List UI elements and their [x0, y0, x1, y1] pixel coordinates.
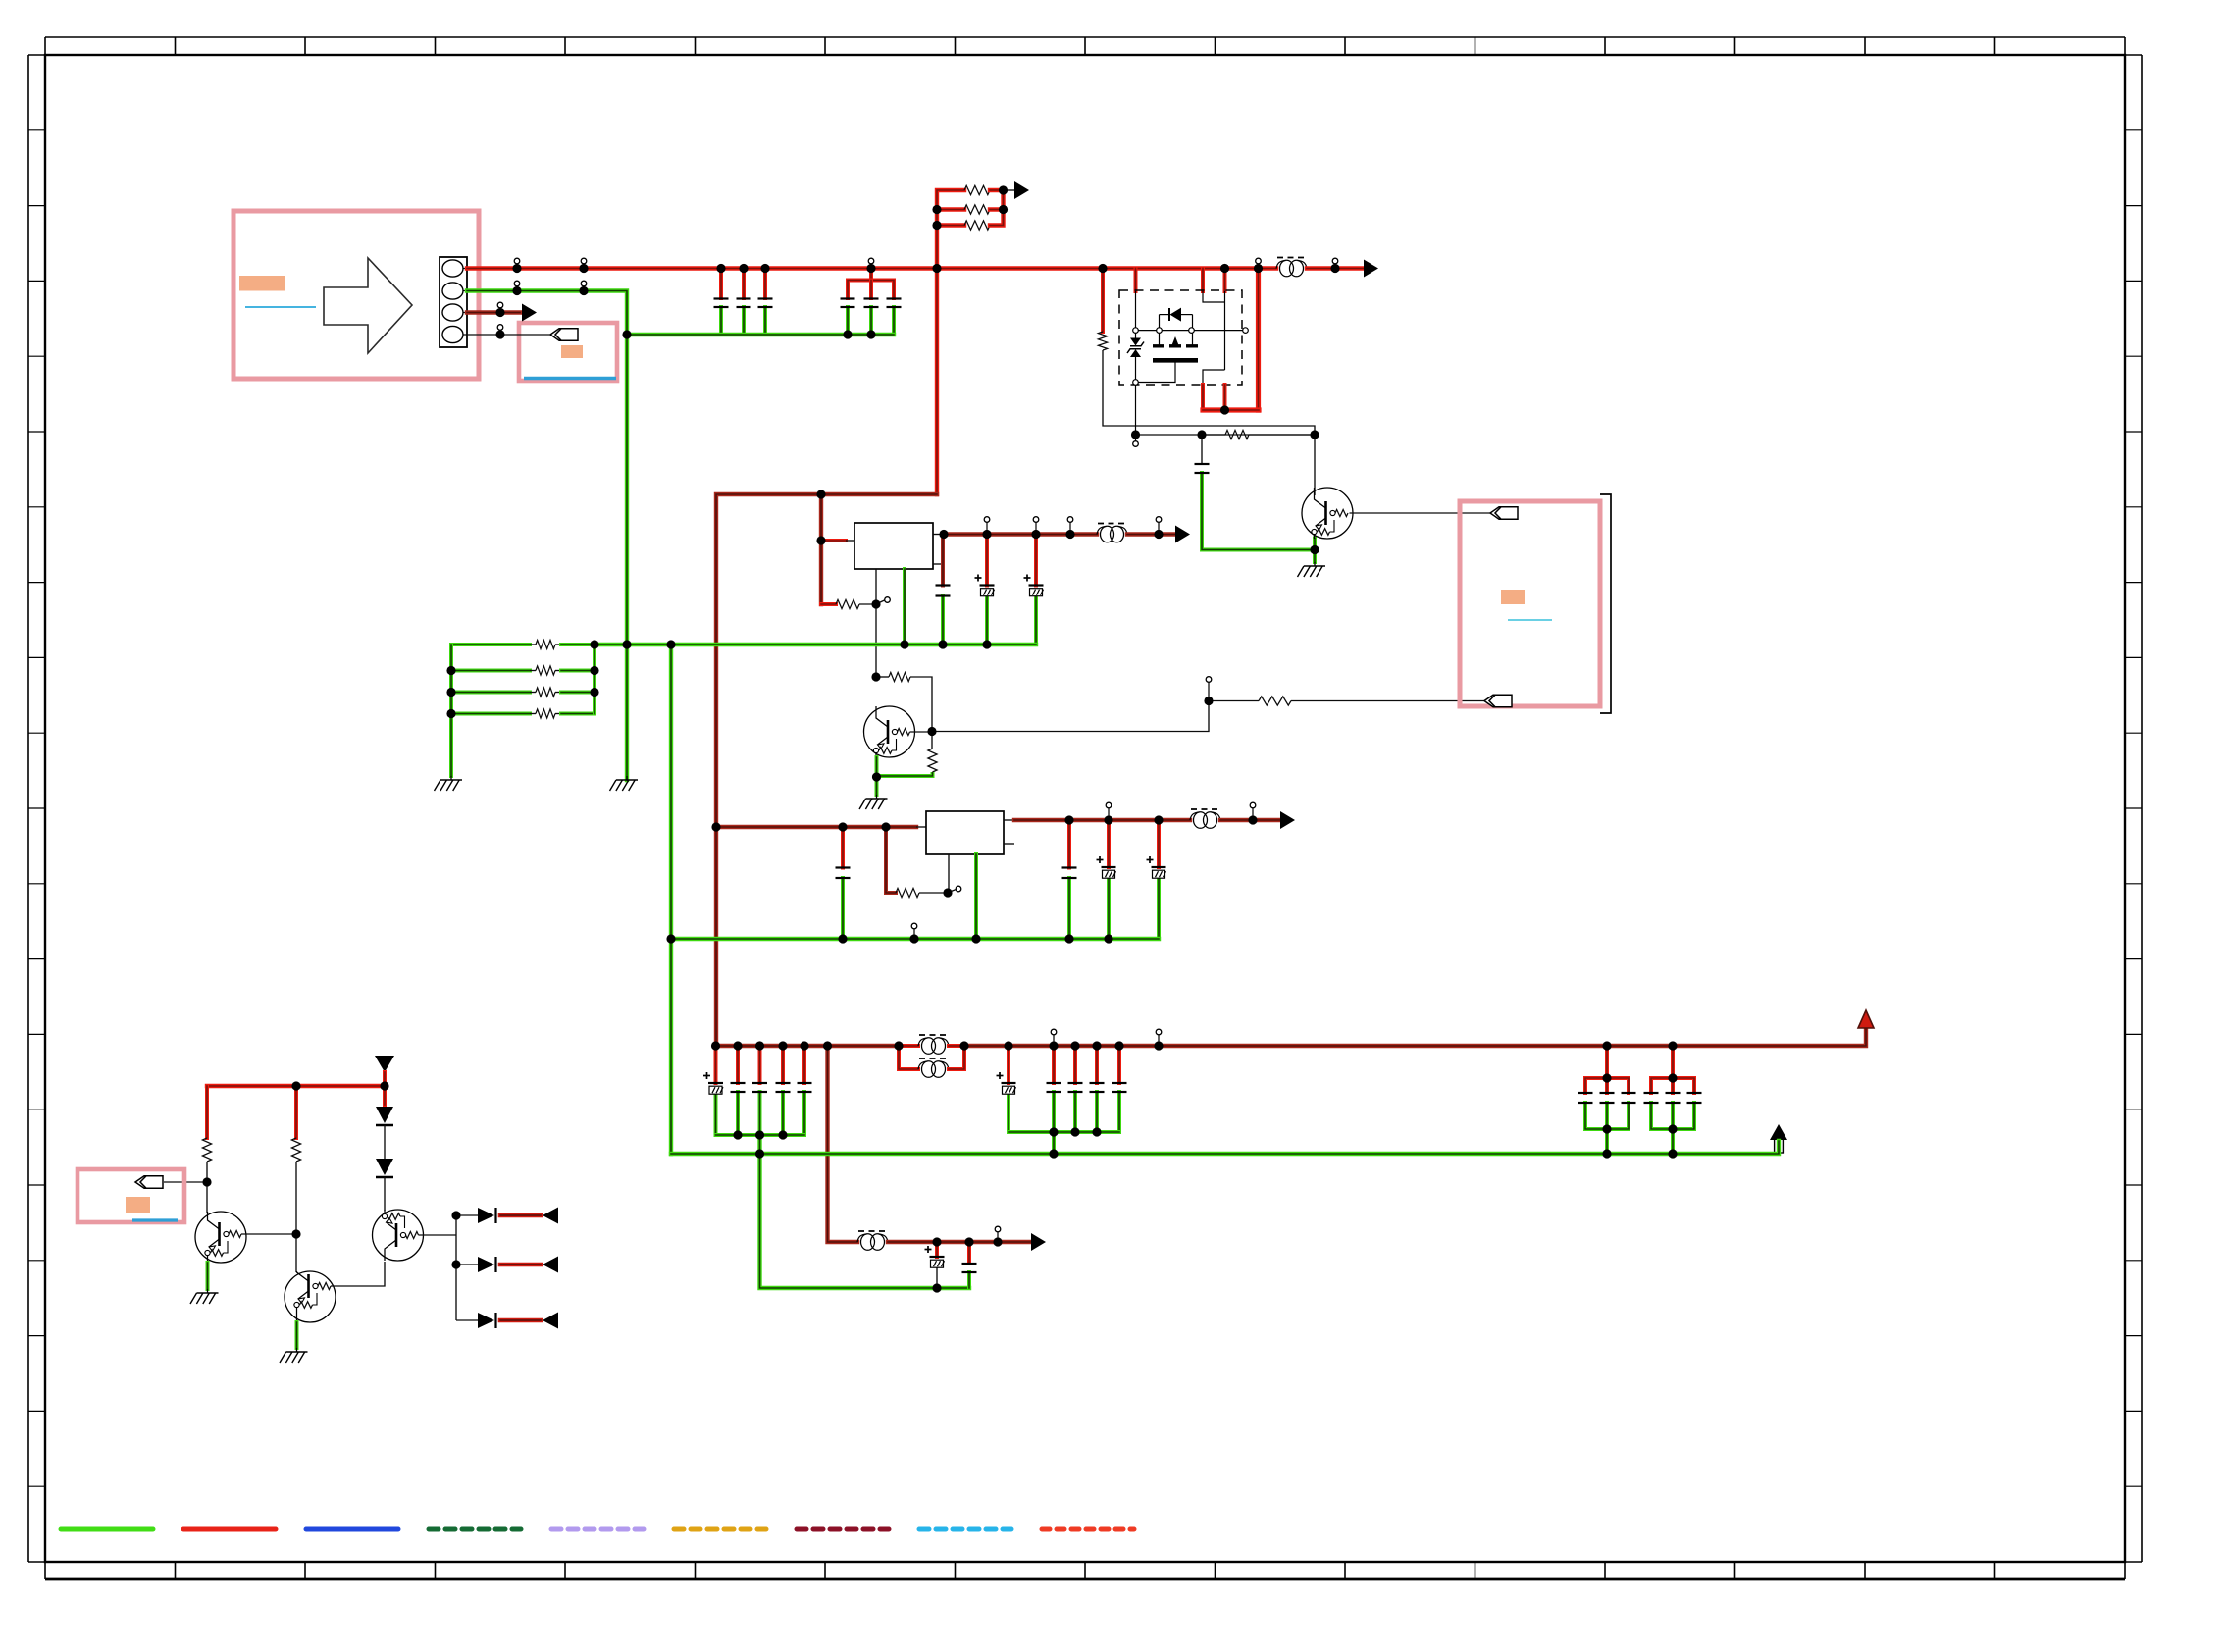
- wire R16 to node: [295, 1162, 297, 1272]
- junction U2 fb node: [943, 888, 952, 897]
- junction gate row x1158: [1131, 430, 1140, 439]
- wire signal from J1 pin4: [467, 334, 550, 336]
- capacitor bank1638 C1: [1600, 1093, 1615, 1103]
- junction bus at C16: [733, 1041, 742, 1050]
- wire bank gnd U x1638: [1585, 1103, 1629, 1129]
- MOSFET Q1 dashed outline box: [1119, 290, 1242, 385]
- wire ladder2 row1 leadr: [555, 644, 561, 645]
- wire C23 stub: [1095, 1046, 1099, 1083]
- module box D (load module, pink outline): [1460, 501, 1600, 706]
- junction green bus x1638: [1602, 1149, 1611, 1158]
- ground symbol ladder2: [435, 776, 463, 791]
- transistor Q3 (digital PNP): [285, 1271, 336, 1322]
- wire ladder row2 right: [990, 207, 1004, 211]
- capacitor C5: [864, 299, 879, 308]
- wire Q3 emitter gnd: [295, 1322, 299, 1348]
- junction VIN at bypass: [1254, 258, 1263, 273]
- wire LED row3 lead: [456, 1319, 478, 1321]
- wire C10 gnd: [1202, 473, 1315, 550]
- wire ladder2 row3 left: [451, 691, 530, 695]
- wire ladder2 row1 leads: [530, 644, 536, 645]
- junction ladder2 right: [590, 666, 598, 675]
- wire U1 out lead: [933, 534, 944, 536]
- junction U1 out: [939, 530, 948, 539]
- resistor R6 (pulldown ladder): [536, 688, 555, 697]
- wire L5 parallel left: [899, 1046, 918, 1069]
- link underline D (blue): [1508, 619, 1552, 621]
- wire C25 gnd link: [936, 1268, 938, 1289]
- wire bank mid gnd x1705: [1671, 1103, 1675, 1129]
- junction gnd line at C25: [932, 1283, 941, 1292]
- junction gate row x1225: [1197, 430, 1206, 439]
- wire Q6 base link: [419, 1234, 457, 1236]
- wire ladder2 left rail: [449, 645, 453, 776]
- chevron port E: [135, 1176, 163, 1188]
- wire Q5 emitter stub: [1313, 539, 1317, 563]
- capacitor C10: [1195, 464, 1210, 473]
- junction bank1 row x798: [778, 1130, 787, 1139]
- wire Vaux arrow stub: [383, 1072, 387, 1086]
- wire ladder2 row4 leadr: [555, 713, 561, 715]
- wire C13 stub: [1107, 820, 1111, 867]
- resistor R9: [889, 672, 910, 681]
- junction ladder2 right: [590, 688, 598, 697]
- wire bank feed x1705: [1671, 1046, 1675, 1078]
- diode D2: [376, 1159, 393, 1177]
- chevron port D2: [1484, 695, 1512, 706]
- junction bus x1181b: [1154, 1029, 1163, 1050]
- wire C16 gnd: [736, 1092, 740, 1135]
- wire U2 input rail: [716, 825, 916, 829]
- wire C21 stub: [1052, 1046, 1056, 1083]
- capacitor C13 (polarized): [1097, 856, 1116, 878]
- wire ladder output stub: [1004, 189, 1015, 191]
- capacitor C15 (polarized): [703, 1072, 723, 1094]
- capacitor C24: [1112, 1083, 1127, 1092]
- capacitor C23: [1090, 1083, 1105, 1092]
- junction U2 gnd at U2 pin: [971, 934, 980, 943]
- net arrow LED row2: [543, 1257, 558, 1273]
- capacitor C25 (polarized): [925, 1246, 945, 1267]
- ground symbol Q5: [1298, 562, 1326, 577]
- junction trunk at U2 rail: [711, 822, 720, 831]
- transistor Q6 (digital PNP): [373, 1210, 424, 1261]
- wire cap C4 bottom stub: [846, 307, 850, 335]
- capacitor bank1638 C0: [1578, 1093, 1593, 1103]
- wire Q5 base out: [1350, 512, 1491, 514]
- wire ladder2 row3 leadr: [555, 692, 561, 694]
- wire C19 gnd: [802, 1092, 806, 1135]
- wire C17 gnd: [758, 1092, 762, 1135]
- wire U1 rail after L2: [1127, 532, 1175, 536]
- inductor L5 (parallel): [918, 1058, 949, 1077]
- wire ladder2 row4 right: [561, 712, 595, 716]
- wire C26 gnd: [967, 1272, 971, 1288]
- wire U1 input branch: [819, 494, 823, 604]
- wire bank gnd drop x1638: [1605, 1129, 1609, 1154]
- capacitor C14 (polarized): [1147, 856, 1166, 878]
- wire bank gnd U x1705: [1651, 1103, 1694, 1129]
- net arrow VSB out: [522, 304, 537, 322]
- wire GND from J1 pin2: [467, 291, 627, 781]
- net arrow LED row1: [543, 1208, 558, 1224]
- junction after L1: [1330, 258, 1339, 273]
- capacitor C12: [1062, 868, 1077, 879]
- junction output5 at C25: [932, 1237, 941, 1246]
- wire Vaux mid drop: [294, 1086, 298, 1138]
- capacitor bank1638 C2: [1622, 1093, 1636, 1103]
- junction GND bus x684: [666, 640, 675, 648]
- junction VIN at switch S: [1220, 264, 1229, 273]
- MOSFET Q1 internals: [1127, 291, 1248, 435]
- junction ladder left row3: [932, 221, 941, 230]
- wire LED row2 red segment: [500, 1263, 541, 1267]
- resistor R15: [202, 1138, 211, 1162]
- net arrow ladder output: [1014, 181, 1029, 199]
- resistor R11: [1259, 697, 1291, 705]
- junction ladder2 left: [446, 666, 455, 675]
- power arrow up (black) at green bus end: [1770, 1124, 1787, 1153]
- resistor R1 (ladder top): [964, 185, 990, 194]
- junction on GND wire at x595: [579, 281, 588, 295]
- capacitor C21: [1047, 1083, 1061, 1092]
- junction bus at C23: [1092, 1041, 1101, 1050]
- wire LED column: [455, 1215, 457, 1320]
- capacitor C9 (polarized): [1024, 575, 1044, 596]
- wire GND return bus y341: [627, 333, 894, 336]
- wire ladder right join: [990, 190, 1004, 226]
- net arrow U2 output: [1280, 811, 1295, 829]
- capacitor C20 (polarized): [997, 1072, 1016, 1094]
- wire C26 stub: [967, 1242, 971, 1264]
- wire R13 lead left: [1202, 434, 1225, 436]
- wire U2 out lead: [1004, 819, 1014, 821]
- connector J1 (4-pin header): [440, 257, 467, 347]
- wire C18 gnd: [781, 1092, 785, 1135]
- junction bus at C15 corner: [711, 1041, 720, 1050]
- net arrow main output: [1364, 260, 1378, 278]
- wire C11 gnd: [841, 878, 845, 939]
- inductor L2 (U1 output): [1097, 524, 1127, 542]
- wire R14 to node: [919, 892, 949, 894]
- regulator U1 (body): [854, 523, 933, 569]
- pin marker U1 fb: [885, 597, 891, 603]
- junction bus at C18: [778, 1041, 787, 1050]
- junction green bus x1705: [1668, 1149, 1677, 1158]
- wire bank1 row drop: [760, 1135, 970, 1288]
- junction gate row x1340: [1310, 430, 1319, 439]
- junction bus at C24: [1114, 1041, 1123, 1050]
- wire main maroon bus y1066: [716, 1044, 899, 1048]
- junction U2 rail fb tap: [881, 822, 890, 831]
- redacted label B (orange): [561, 345, 583, 358]
- junction bus at bank x1705: [1668, 1041, 1677, 1050]
- junction VIN at cap C3: [760, 264, 769, 273]
- wire bank gnd drop x1705: [1671, 1129, 1675, 1154]
- junction U1 input tap: [816, 536, 825, 544]
- capacitor bank1705 C1: [1666, 1093, 1681, 1103]
- junction output5 x1017: [993, 1226, 1002, 1246]
- wire C21 gnd: [1052, 1092, 1056, 1132]
- capacitor C4: [841, 299, 855, 308]
- junction U1 rail x1091: [1065, 517, 1074, 539]
- wire switch drain stub2: [1223, 385, 1227, 410]
- capacitor C26: [962, 1264, 977, 1272]
- diode D1: [376, 1107, 393, 1125]
- diode D5: [478, 1313, 496, 1328]
- junction VIN at group B feed: [866, 258, 875, 273]
- wire C13 gnd: [1107, 879, 1111, 940]
- wire C16 stub: [736, 1046, 740, 1083]
- wire cap C5 stub: [869, 281, 873, 299]
- ground symbol Q3: [280, 1348, 308, 1363]
- wire C20 gnd: [1007, 1095, 1010, 1133]
- wire ladder2 row1 left: [451, 643, 530, 646]
- transistor Q2 (digital PNP): [195, 1212, 246, 1263]
- junction bus at C17: [755, 1041, 764, 1050]
- junction Q4 emitter: [872, 772, 881, 781]
- wire L4 lead left: [899, 1044, 918, 1048]
- wire R9 right to riser: [910, 677, 932, 732]
- capacitor C7 (U1 out): [936, 586, 951, 596]
- wire gate node row: [1136, 434, 1316, 436]
- wire C10 top stub: [1201, 435, 1203, 464]
- wire Q4 base link: [910, 731, 933, 733]
- capacitor C2: [737, 299, 751, 308]
- junction U1 rail at x1181: [1154, 517, 1163, 539]
- redacted label D (orange): [1501, 590, 1525, 604]
- wire cap C1 top stub: [719, 269, 723, 299]
- capacitor C18: [776, 1083, 791, 1092]
- wire ladder2 right rail: [593, 645, 596, 714]
- junction U2 gnd at C12: [1064, 934, 1073, 943]
- wire LED row1 lead: [456, 1214, 478, 1216]
- wire C20 stub: [1007, 1046, 1010, 1083]
- wire bank cap mid stub x1705: [1671, 1078, 1675, 1093]
- wire Q5 collector: [1314, 435, 1316, 495]
- junction GND return at C5: [866, 330, 875, 338]
- wire bank tee x1638: [1585, 1078, 1629, 1093]
- wire C23 gnd: [1095, 1092, 1099, 1132]
- junction Vaux at diode feed: [380, 1081, 388, 1090]
- wire U2 adj pin down: [948, 854, 950, 893]
- wire C9 stub: [1034, 535, 1038, 586]
- wire U1 gnd pin down: [903, 569, 906, 645]
- wire bank mid gnd x1638: [1605, 1103, 1609, 1129]
- junction Q2 base node: [202, 1177, 211, 1186]
- wire Q2 base link: [241, 1233, 296, 1235]
- wire Q2 emitter gnd: [206, 1263, 210, 1289]
- wire R10 to emitter green: [877, 772, 933, 776]
- inductor L1 (VIN filtered out): [1276, 258, 1307, 277]
- capacitor C16: [731, 1083, 746, 1092]
- junction bus L4 left: [894, 1041, 903, 1050]
- junction bank1 row x752: [733, 1130, 742, 1139]
- junction GND bus at C8: [982, 640, 991, 648]
- wire D2 to Q3: [384, 1177, 386, 1211]
- junction bank1 row x774: [755, 1130, 764, 1139]
- junction GND bus at C7: [938, 640, 947, 648]
- junction ladder right row1: [999, 185, 1008, 194]
- junction ladder2 right: [590, 640, 598, 648]
- transistor Q5 (digital PNP): [1302, 488, 1353, 539]
- wire U2 gnd pin down: [974, 854, 978, 939]
- wire cap group B feed: [869, 269, 873, 281]
- wire U2 fb stub pin: [950, 890, 957, 893]
- capacitor C19: [798, 1083, 812, 1092]
- wire C8 gnd stub: [985, 596, 989, 645]
- wire main green bus y1176: [671, 1141, 1779, 1154]
- wire C25 stub: [935, 1242, 939, 1257]
- pin marker U2 fb: [956, 886, 961, 892]
- junction bus x1074: [1049, 1029, 1058, 1050]
- wire diode feed: [383, 1086, 387, 1105]
- wire bank2 row drop: [1052, 1132, 1056, 1154]
- resistor R7 (pulldown ladder): [536, 709, 555, 718]
- wire switch source stub1: [1201, 269, 1205, 292]
- junction U1 fb node: [871, 599, 880, 608]
- junction remote sense node: [1204, 677, 1213, 705]
- junction Vaux at x302: [291, 1081, 300, 1090]
- resistor R10 (Q4 base-emitter): [928, 749, 937, 772]
- power arrow up (red) at bus end: [1858, 1010, 1874, 1028]
- junction U2 gnd at C13: [1104, 934, 1112, 943]
- wire U2 gnd bus: [671, 937, 1159, 941]
- wire Q4 base node down R10: [931, 732, 933, 749]
- wire fb node stub to pin: [878, 600, 885, 603]
- junction bus at C22: [1070, 1041, 1079, 1050]
- junction bus drop x843: [823, 1041, 832, 1050]
- wire VIN riser to resistor ladder: [937, 190, 964, 494]
- inductor L4: [918, 1035, 949, 1054]
- wire Q4 node to remote: [932, 701, 1209, 732]
- wire bank feed x1638: [1605, 1046, 1609, 1078]
- wire U1 adj pin down: [875, 569, 877, 677]
- wire GND bus y657: [595, 643, 1036, 646]
- junction on VIN at x527: [512, 258, 521, 273]
- junction bank2 row x1118: [1092, 1127, 1101, 1136]
- wire switch source stub2: [1223, 269, 1227, 292]
- junction bank2 row x1096: [1070, 1127, 1079, 1136]
- redacted label A (orange): [239, 276, 285, 291]
- wire U1 input tap: [821, 539, 846, 542]
- resistor R16: [291, 1138, 300, 1162]
- legend color key lines: [61, 1527, 1134, 1532]
- wire ladder2 row2 left: [451, 669, 530, 673]
- wire C15 stub: [714, 1046, 718, 1083]
- junction U2 out at C12: [1064, 815, 1073, 824]
- capacitor bank1705 C2: [1687, 1093, 1702, 1103]
- bracket right of box D: [1600, 494, 1611, 713]
- junction green bus x1074: [1049, 1149, 1058, 1158]
- wire Vaux bus: [207, 1084, 385, 1088]
- wire R12 down L: [1103, 350, 1315, 435]
- module box E (pink outline): [78, 1169, 184, 1222]
- redacted label E (orange): [126, 1197, 150, 1213]
- wire ladder2 row4 leads: [530, 713, 536, 715]
- junction ladder left row2: [932, 205, 941, 214]
- ground symbol main GND drop: [610, 776, 639, 791]
- wire ladder2 row2 leads: [530, 670, 536, 672]
- junction U2 rail after L3: [1248, 802, 1257, 824]
- wire switch bypass thick: [1256, 269, 1261, 411]
- wire ladder2 row2 right: [561, 669, 595, 673]
- wire cap C2 top stub: [742, 269, 746, 299]
- junction U2 gnd at C11: [838, 934, 847, 943]
- net arrow U1 output: [1175, 526, 1190, 543]
- junction bank tee x1705: [1668, 1073, 1677, 1082]
- wire cap C3 bottom stub: [763, 307, 767, 335]
- junction VIN at cap C2: [739, 264, 748, 273]
- wire output5 rail: [888, 1240, 1030, 1244]
- junction trunk at U1 branch: [816, 490, 825, 498]
- junction U2 out x1181: [1154, 815, 1163, 824]
- inductor L6: [857, 1231, 888, 1250]
- wire U1 out cap drop: [941, 536, 945, 586]
- wire cap bank2 gnd row: [1009, 1130, 1119, 1134]
- capacitor C1: [714, 299, 729, 308]
- wire C9 gnd stub: [1034, 596, 1038, 645]
- wire C18 stub: [781, 1046, 785, 1083]
- wire U1 fb bottom: [821, 602, 836, 606]
- wire ladder row3 left: [937, 223, 964, 227]
- junction U2 out at C13: [1104, 802, 1112, 824]
- wire U2 nc pin stub: [1004, 843, 1014, 845]
- link underline A (blue): [245, 306, 316, 308]
- junction U2 rail at C11: [838, 822, 847, 831]
- wire ladder row1 right: [990, 188, 1004, 192]
- wire cap group B bar: [848, 281, 894, 299]
- junction on GND wire at x527: [512, 281, 521, 295]
- net arrow LED row3: [543, 1313, 558, 1329]
- junction VIN bus at trunk: [932, 264, 941, 273]
- wire VSB stub from J1 pin3: [467, 310, 520, 314]
- resistor R4 (pulldown ladder): [536, 640, 555, 648]
- wire Q4 emitter to gnd: [875, 757, 879, 795]
- wire VIN at R12 stub: [1101, 269, 1105, 333]
- junction ladder2 left: [446, 709, 455, 718]
- regulator U2 (body): [926, 811, 1004, 854]
- wire VIN bus (net from J1 pin1): [467, 266, 1276, 270]
- wire ladder2 row3 leads: [530, 692, 536, 694]
- junction U1 rail at C9: [1031, 517, 1040, 539]
- wire cap C6 bottom stub: [892, 307, 896, 335]
- resistor R12 (gate pulldown top): [1098, 332, 1107, 350]
- wire C22 stub: [1073, 1046, 1077, 1083]
- wire C11 stub top: [841, 827, 845, 868]
- diode D3: [478, 1208, 496, 1223]
- junction Q4 base node: [927, 727, 936, 736]
- wire VIN trunk: [716, 494, 937, 1046]
- junction switch drain: [1220, 405, 1229, 414]
- wire main maroon bus y1066 mid: [964, 1028, 1866, 1046]
- wire U2 in lead: [916, 826, 926, 828]
- wire cap C3 top stub: [763, 269, 767, 299]
- wire C24 stub: [1117, 1046, 1121, 1083]
- diode D4: [478, 1257, 496, 1272]
- ground symbol Q2: [190, 1289, 219, 1304]
- wire C8 stub: [985, 535, 989, 586]
- chevron port symbol in box B: [550, 329, 578, 340]
- junction green bus x775: [755, 1149, 764, 1158]
- wire U1 output rail: [944, 532, 1097, 536]
- resistor R3 (ladder bottom): [964, 221, 990, 230]
- junction LED row2: [451, 1260, 460, 1268]
- wire R9 left lead: [876, 676, 889, 678]
- wire chevron to node: [164, 1181, 207, 1183]
- wire U2 output rail: [1014, 818, 1190, 822]
- junction U2 gnd x932: [909, 923, 918, 943]
